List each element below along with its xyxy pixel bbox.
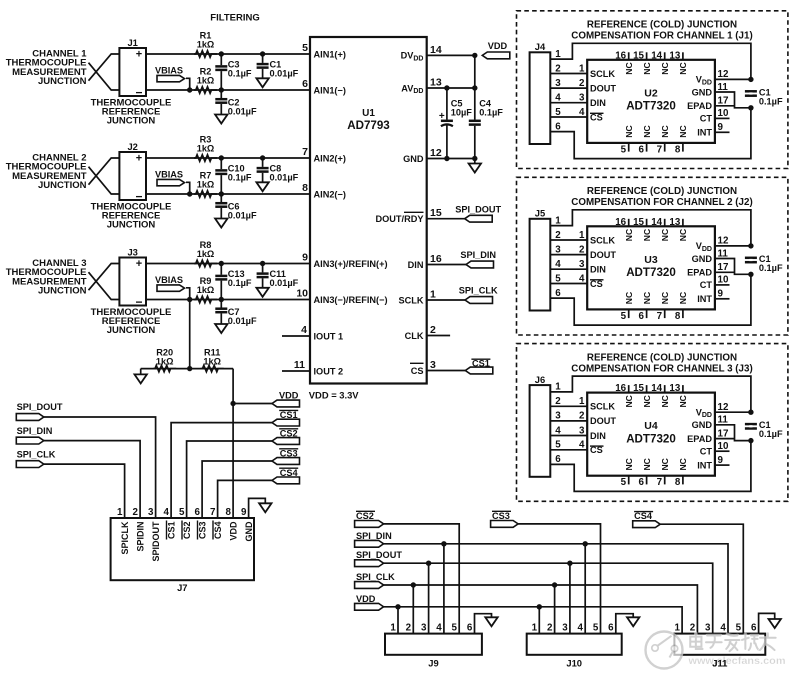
svg-text:J4: J4 [535, 41, 546, 52]
svg-text:SPI_CLK: SPI_CLK [356, 572, 395, 582]
svg-text:VBIAS: VBIAS [155, 170, 183, 180]
svg-text:CT: CT [700, 447, 713, 457]
svg-text:5: 5 [452, 622, 458, 633]
svg-text:14: 14 [651, 50, 662, 61]
svg-text:CT: CT [700, 114, 713, 124]
svg-text:AIN1(+): AIN1(+) [314, 49, 346, 59]
svg-text:4: 4 [301, 324, 307, 336]
svg-text:J9: J9 [428, 658, 438, 669]
svg-text:6: 6 [555, 454, 561, 465]
svg-text:CS2: CS2 [182, 522, 192, 540]
svg-text:AIN2(−): AIN2(−) [314, 189, 346, 199]
svg-text:1kΩ: 1kΩ [197, 179, 215, 189]
svg-text:6: 6 [194, 507, 200, 518]
svg-text:NC: NC [678, 292, 688, 304]
svg-text:VDD: VDD [356, 594, 376, 604]
svg-text:NC: NC [660, 458, 670, 470]
svg-text:VDD: VDD [488, 41, 508, 51]
svg-text:DIN: DIN [408, 260, 424, 270]
svg-text:15: 15 [633, 50, 644, 61]
svg-text:6: 6 [608, 622, 614, 633]
svg-text:7: 7 [210, 507, 216, 518]
svg-text:AIN3(+)/REFIN(+): AIN3(+)/REFIN(+) [314, 259, 388, 269]
svg-text:1: 1 [579, 230, 585, 241]
svg-text:3: 3 [562, 622, 568, 633]
svg-text:2: 2 [430, 324, 436, 336]
svg-text:2: 2 [132, 507, 138, 518]
svg-text:JUNCTION: JUNCTION [107, 325, 156, 336]
svg-text:4: 4 [555, 259, 561, 270]
svg-text:NC: NC [624, 62, 634, 74]
svg-text:SPI_CLK: SPI_CLK [459, 286, 498, 296]
svg-text:NC: NC [678, 395, 688, 407]
svg-text:NC: NC [624, 458, 634, 470]
svg-text:5: 5 [555, 107, 561, 118]
svg-text:SPI_DOUT: SPI_DOUT [455, 204, 501, 214]
svg-text:13: 13 [430, 77, 442, 89]
svg-text:SPIDIN: SPIDIN [135, 522, 145, 552]
svg-text:CS3: CS3 [280, 448, 298, 458]
svg-text:J10: J10 [566, 658, 582, 669]
svg-text:U2: U2 [644, 87, 658, 99]
svg-text:8: 8 [675, 144, 681, 155]
svg-text:J6: J6 [535, 374, 545, 385]
svg-text:2: 2 [579, 78, 585, 89]
svg-text:J11: J11 [712, 658, 727, 669]
svg-text:1kΩ: 1kΩ [197, 75, 215, 85]
svg-text:NC: NC [660, 125, 670, 137]
svg-text:NC: NC [660, 292, 670, 304]
svg-text:INT: INT [697, 128, 712, 138]
svg-text:NC: NC [660, 62, 670, 74]
svg-text:0.01µF: 0.01µF [228, 106, 257, 116]
svg-text:3: 3 [579, 425, 585, 436]
svg-text:REFERENCE (COLD) JUNCTION: REFERENCE (COLD) JUNCTION [587, 20, 737, 31]
svg-text:5: 5 [621, 477, 627, 488]
svg-text:GND: GND [692, 87, 713, 97]
svg-text:NC: NC [678, 62, 688, 74]
svg-text:3: 3 [579, 259, 585, 270]
svg-text:9: 9 [718, 455, 724, 466]
svg-text:14: 14 [651, 383, 662, 394]
svg-text:3: 3 [421, 622, 427, 633]
svg-text:5: 5 [555, 273, 561, 284]
svg-text:JUNCTION: JUNCTION [38, 76, 87, 87]
svg-text:U3: U3 [644, 254, 658, 266]
svg-text:COMPENSATION FOR CHANNEL 2 (J2: COMPENSATION FOR CHANNEL 2 (J2) [571, 197, 752, 208]
svg-text:REFERENCE (COLD) JUNCTION: REFERENCE (COLD) JUNCTION [587, 352, 737, 363]
svg-text:1: 1 [674, 622, 680, 633]
svg-text:8: 8 [675, 477, 681, 488]
svg-text:CS: CS [411, 366, 424, 376]
svg-text:0.01µF: 0.01µF [228, 316, 257, 326]
svg-text:4: 4 [720, 622, 726, 633]
svg-text:6: 6 [639, 144, 645, 155]
svg-text:SPIDOUT: SPIDOUT [151, 521, 161, 562]
svg-text:NC: NC [660, 395, 670, 407]
svg-text:4: 4 [579, 107, 585, 118]
svg-text:SPI_DIN: SPI_DIN [460, 250, 496, 260]
svg-text:1kΩ: 1kΩ [197, 249, 215, 259]
svg-text:EPAD: EPAD [687, 268, 712, 278]
svg-text:6: 6 [639, 477, 645, 488]
svg-text:0.1µF: 0.1µF [228, 172, 252, 182]
svg-text:14: 14 [651, 217, 662, 228]
svg-text:J2: J2 [127, 141, 137, 152]
svg-text:14: 14 [430, 44, 442, 56]
svg-text:U1: U1 [362, 108, 375, 119]
svg-text:NC: NC [624, 125, 634, 137]
svg-text:INT: INT [697, 460, 712, 470]
svg-text:2: 2 [579, 244, 585, 255]
svg-text:GND: GND [692, 420, 713, 430]
svg-text:6: 6 [639, 311, 645, 322]
svg-text:0.1µF: 0.1µF [479, 107, 503, 117]
svg-text:1: 1 [117, 507, 123, 518]
svg-text:+: + [136, 258, 142, 270]
svg-text:CS2: CS2 [356, 511, 374, 521]
svg-text:0.1µF: 0.1µF [228, 278, 252, 288]
svg-text:VDD = 3.3V: VDD = 3.3V [309, 390, 360, 401]
svg-text:ADT7320: ADT7320 [626, 100, 676, 113]
svg-text:4: 4 [555, 93, 561, 104]
svg-text:JUNCTION: JUNCTION [107, 115, 156, 126]
svg-text:0.1µF: 0.1µF [228, 68, 252, 78]
svg-text:10: 10 [718, 441, 729, 452]
svg-text:NC: NC [642, 229, 652, 241]
svg-text:COMPENSATION FOR CHANNEL 1 (J1: COMPENSATION FOR CHANNEL 1 (J1) [571, 31, 752, 42]
svg-text:SCLK: SCLK [590, 69, 615, 79]
svg-text:FILTERING: FILTERING [210, 13, 259, 24]
svg-text:10: 10 [718, 108, 729, 119]
svg-text:DOUT: DOUT [590, 250, 616, 260]
svg-text:0.1µF: 0.1µF [759, 429, 783, 439]
svg-text:5: 5 [555, 440, 561, 451]
svg-text:AIN1(−): AIN1(−) [314, 85, 346, 95]
svg-text:11: 11 [718, 82, 729, 93]
svg-text:7: 7 [657, 311, 663, 322]
svg-text:6: 6 [302, 78, 308, 90]
svg-text:NC: NC [660, 229, 670, 241]
svg-text:VDD: VDD [279, 390, 299, 400]
svg-text:1: 1 [579, 396, 585, 407]
svg-text:7: 7 [657, 477, 663, 488]
svg-text:12: 12 [718, 402, 729, 413]
svg-text:ADT7320: ADT7320 [626, 266, 676, 279]
svg-text:5: 5 [593, 622, 599, 633]
svg-text:NC: NC [642, 62, 652, 74]
svg-text:2: 2 [690, 622, 696, 633]
svg-text:1kΩ: 1kΩ [203, 357, 221, 367]
svg-text:3: 3 [148, 507, 154, 518]
svg-text:12: 12 [718, 69, 729, 80]
svg-text:AIN3(−)/REFIN(−): AIN3(−)/REFIN(−) [314, 295, 388, 305]
svg-text:4: 4 [579, 440, 585, 451]
svg-text:2: 2 [406, 622, 412, 633]
svg-text:6: 6 [467, 622, 473, 633]
svg-text:17: 17 [718, 262, 729, 273]
svg-text:AD7793: AD7793 [347, 119, 390, 132]
svg-text:NC: NC [624, 229, 634, 241]
svg-text:NC: NC [642, 458, 652, 470]
svg-text:6: 6 [751, 622, 757, 633]
svg-text:CS1: CS1 [166, 522, 176, 540]
svg-text:9: 9 [718, 122, 724, 133]
svg-text:1: 1 [532, 622, 538, 633]
svg-text:SPI_DOUT: SPI_DOUT [17, 402, 63, 412]
svg-text:1: 1 [430, 289, 436, 301]
svg-text:SPI_DOUT: SPI_DOUT [356, 550, 402, 560]
svg-text:17: 17 [718, 428, 729, 439]
svg-text:0.01µF: 0.01µF [270, 68, 299, 78]
svg-text:15: 15 [430, 207, 442, 219]
svg-text:SPI_DIN: SPI_DIN [17, 426, 53, 436]
svg-text:1kΩ: 1kΩ [197, 285, 215, 295]
svg-text:+: + [439, 111, 445, 122]
svg-text:DOUT: DOUT [590, 416, 616, 426]
svg-text:5: 5 [621, 311, 627, 322]
svg-text:4: 4 [163, 507, 169, 518]
svg-text:13: 13 [669, 383, 680, 394]
svg-text:NC: NC [624, 292, 634, 304]
svg-text:IOUT 2: IOUT 2 [314, 366, 344, 376]
svg-text:U4: U4 [644, 420, 658, 432]
svg-text:2: 2 [555, 230, 561, 241]
svg-text:SCLK: SCLK [590, 235, 615, 245]
svg-text:SPICLK: SPICLK [120, 521, 130, 555]
svg-text:4: 4 [436, 622, 442, 633]
svg-text:4: 4 [579, 273, 585, 284]
svg-text:11: 11 [718, 415, 729, 426]
svg-text:5: 5 [179, 507, 185, 518]
svg-text:10: 10 [296, 288, 308, 300]
svg-text:3: 3 [555, 411, 561, 422]
svg-text:SPI_DIN: SPI_DIN [356, 531, 392, 541]
svg-text:2: 2 [579, 411, 585, 422]
svg-text:ADT7320: ADT7320 [626, 432, 676, 445]
svg-text:CS1: CS1 [280, 410, 298, 420]
svg-text:16: 16 [615, 50, 626, 61]
svg-text:0.01µF: 0.01µF [270, 278, 299, 288]
svg-text:VDD: VDD [228, 521, 238, 541]
svg-text:CS4: CS4 [634, 511, 653, 521]
svg-text:15: 15 [633, 217, 644, 228]
svg-text:CLK: CLK [405, 331, 424, 341]
svg-text:3: 3 [705, 622, 711, 633]
svg-text:2: 2 [555, 63, 561, 74]
svg-text:12: 12 [718, 236, 729, 247]
svg-text:+: + [136, 49, 142, 61]
svg-text:J3: J3 [127, 247, 137, 258]
svg-text:10µF: 10µF [451, 107, 473, 117]
svg-text:NC: NC [678, 125, 688, 137]
svg-text:3: 3 [579, 93, 585, 104]
svg-text:CS2: CS2 [280, 428, 298, 438]
svg-text:17: 17 [718, 96, 729, 107]
svg-text:SPI_CLK: SPI_CLK [17, 449, 56, 459]
svg-text:GND: GND [244, 521, 254, 542]
svg-text:VBIAS: VBIAS [155, 275, 183, 285]
svg-text:3: 3 [555, 78, 561, 89]
svg-text:1: 1 [555, 49, 561, 60]
svg-text:GND: GND [692, 254, 713, 264]
svg-text:NC: NC [642, 125, 652, 137]
svg-text:11: 11 [718, 248, 729, 259]
svg-text:6: 6 [555, 288, 561, 299]
svg-text:IOUT 1: IOUT 1 [314, 331, 344, 341]
svg-text:DIN: DIN [590, 98, 606, 108]
svg-text:1: 1 [555, 215, 561, 226]
svg-text:4: 4 [578, 622, 584, 633]
svg-text:DOUT: DOUT [590, 83, 616, 93]
svg-text:DOUT/RDY: DOUT/RDY [376, 214, 424, 224]
svg-text:15: 15 [633, 383, 644, 394]
svg-text:www.elecfans.com: www.elecfans.com [687, 655, 785, 667]
svg-text:1kΩ: 1kΩ [197, 40, 215, 50]
svg-text:1: 1 [555, 382, 561, 393]
svg-text:J1: J1 [127, 37, 137, 48]
svg-text:8: 8 [675, 311, 681, 322]
svg-text:JUNCTION: JUNCTION [38, 180, 87, 191]
svg-text:0.1µF: 0.1µF [759, 96, 783, 106]
svg-text:EPAD: EPAD [687, 101, 712, 111]
svg-text:9: 9 [718, 289, 724, 300]
svg-text:J7: J7 [177, 582, 187, 593]
svg-text:11: 11 [294, 359, 305, 371]
svg-text:13: 13 [669, 217, 680, 228]
svg-text:13: 13 [669, 50, 680, 61]
svg-text:0.1µF: 0.1µF [759, 263, 783, 273]
svg-text:12: 12 [430, 147, 442, 159]
svg-text:1: 1 [390, 622, 396, 633]
svg-text:CS3: CS3 [197, 522, 207, 540]
svg-text:J5: J5 [535, 208, 545, 219]
svg-text:2: 2 [547, 622, 553, 633]
svg-text:16: 16 [615, 217, 626, 228]
svg-text:DIN: DIN [590, 431, 606, 441]
svg-text:CS3: CS3 [492, 511, 510, 521]
svg-text:GND: GND [403, 154, 424, 164]
svg-text:7: 7 [302, 146, 308, 158]
svg-text:EPAD: EPAD [687, 434, 712, 444]
svg-text:0.01µF: 0.01µF [270, 172, 299, 182]
svg-text:CS4: CS4 [280, 468, 299, 478]
svg-text:0.01µF: 0.01µF [228, 210, 257, 220]
svg-text:2: 2 [555, 396, 561, 407]
svg-text:+: + [136, 153, 142, 165]
svg-text:7: 7 [657, 144, 663, 155]
svg-text:1kΩ: 1kΩ [197, 144, 215, 154]
svg-text:6: 6 [555, 121, 561, 132]
svg-text:JUNCTION: JUNCTION [38, 286, 87, 297]
svg-text:NC: NC [642, 292, 652, 304]
svg-text:16: 16 [430, 253, 442, 265]
svg-text:AIN2(+): AIN2(+) [314, 153, 346, 163]
svg-text:REFERENCE (COLD) JUNCTION: REFERENCE (COLD) JUNCTION [587, 186, 737, 197]
svg-text:NC: NC [642, 395, 652, 407]
svg-text:SCLK: SCLK [590, 402, 615, 412]
svg-text:3: 3 [430, 359, 436, 371]
svg-text:NC: NC [624, 395, 634, 407]
svg-text:SCLK: SCLK [398, 295, 423, 305]
svg-text:9: 9 [241, 507, 247, 518]
svg-text:JUNCTION: JUNCTION [107, 219, 156, 230]
svg-text:5: 5 [302, 42, 308, 54]
svg-text:CS1: CS1 [472, 359, 490, 369]
svg-text:CS4: CS4 [213, 522, 223, 540]
svg-text:COMPENSATION FOR CHANNEL 3 (J3: COMPENSATION FOR CHANNEL 3 (J3) [571, 363, 752, 374]
svg-text:INT: INT [697, 294, 712, 304]
svg-text:8: 8 [302, 182, 308, 194]
svg-text:5: 5 [736, 622, 742, 633]
svg-text:1: 1 [579, 63, 585, 74]
svg-text:1kΩ: 1kΩ [156, 357, 174, 367]
svg-text:NC: NC [678, 458, 688, 470]
svg-text:VBIAS: VBIAS [155, 66, 183, 76]
svg-text:5: 5 [621, 144, 627, 155]
svg-text:10: 10 [718, 275, 729, 286]
svg-text:4: 4 [555, 425, 561, 436]
svg-text:8: 8 [225, 507, 231, 518]
svg-text:3: 3 [555, 244, 561, 255]
svg-text:CT: CT [700, 280, 713, 290]
svg-text:DIN: DIN [590, 265, 606, 275]
svg-text:16: 16 [615, 383, 626, 394]
svg-text:9: 9 [302, 252, 308, 264]
svg-text:NC: NC [678, 229, 688, 241]
